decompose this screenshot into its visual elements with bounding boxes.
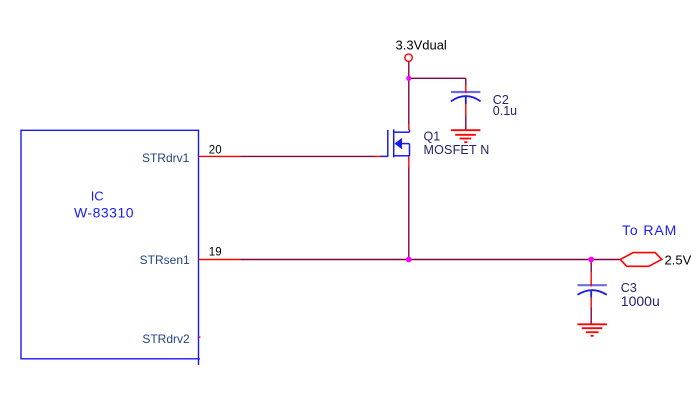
svg-text:0.1u: 0.1u <box>493 104 517 118</box>
svg-text:19: 19 <box>209 247 222 259</box>
svg-text:STRsen1: STRsen1 <box>140 253 190 267</box>
svg-text:IC: IC <box>91 189 104 204</box>
svg-text:STRdrv1: STRdrv1 <box>142 151 190 165</box>
svg-text:3.3Vdual: 3.3Vdual <box>396 38 447 53</box>
svg-text:1000u: 1000u <box>621 293 660 309</box>
svg-text:MOSFET N: MOSFET N <box>424 143 490 157</box>
svg-text:2.5V: 2.5V <box>665 252 692 267</box>
svg-text:Q1: Q1 <box>424 130 441 144</box>
svg-text:20: 20 <box>209 145 222 157</box>
svg-text:To RAM: To RAM <box>622 222 677 238</box>
svg-text:STRdrv2: STRdrv2 <box>142 332 190 346</box>
svg-text:W-83310: W-83310 <box>74 205 134 221</box>
